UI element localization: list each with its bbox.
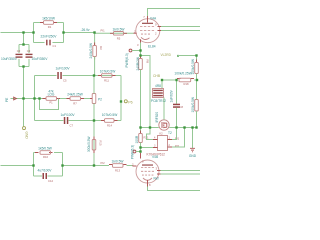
svg-text:240R/2W: 240R/2W bbox=[136, 56, 140, 70]
junction at 192,127 bbox=[191, 126, 193, 128]
svg-text:T2: T2 bbox=[168, 131, 172, 135]
svg-text:1uF/100V: 1uF/100V bbox=[55, 66, 70, 70]
capacitor C7 lower coupling bbox=[60, 113, 75, 128]
junction at 34,98 bbox=[33, 97, 35, 99]
wire main top rail left bbox=[1, 32, 34, 34]
node -26.9v bbox=[81, 28, 90, 32]
junction at 140,127 bbox=[139, 126, 141, 128]
junction at 140,151 bbox=[139, 150, 141, 152]
svg-text:1uF/100V: 1uF/100V bbox=[60, 113, 75, 117]
gnd flag left bbox=[5, 97, 17, 102]
wire elec cap loop bbox=[19, 45, 29, 67]
svg-text:R13: R13 bbox=[115, 168, 120, 172]
svg-text:PE: PE bbox=[5, 97, 9, 102]
junction at 33,32 bbox=[32, 31, 34, 33]
wire ground bus y98 bbox=[11, 98, 91, 100]
svg-text:K7040=P612: K7040=P612 bbox=[147, 153, 166, 157]
wire heater links bbox=[141, 128, 154, 148]
svg-text:10uF/350V: 10uF/350V bbox=[32, 57, 49, 61]
label GND vertical bbox=[23, 127, 29, 140]
junction at 162,78 bbox=[161, 79, 163, 81]
label CHB bbox=[153, 74, 161, 78]
junction at 93.5,165 bbox=[93, 164, 95, 166]
junction at 120.5,101 bbox=[120, 100, 122, 102]
svg-text:-26.9v: -26.9v bbox=[81, 28, 90, 32]
svg-text:P1: P1 bbox=[49, 101, 53, 105]
svg-text:R9: R9 bbox=[145, 60, 149, 64]
junction at 140,147 bbox=[139, 146, 141, 148]
svg-text:1k/0.5W: 1k/0.5W bbox=[113, 27, 126, 31]
wire main top rail right bbox=[64, 32, 95, 34]
resistor R5 1k/0.5W bbox=[110, 27, 127, 40]
junction at 184,127 bbox=[183, 126, 185, 128]
svg-text:2: 2 bbox=[155, 32, 157, 36]
wire ground drop x23 bbox=[23, 67, 25, 127]
junction at 94,32 bbox=[93, 31, 95, 33]
svg-text:240k/0.5W: 240k/0.5W bbox=[89, 42, 93, 58]
capacitor C8 1uF/63V bbox=[170, 80, 184, 128]
mosfet T2 bbox=[155, 98, 172, 136]
svg-text:CHB: CHB bbox=[153, 74, 161, 78]
svg-text:C3: C3 bbox=[27, 49, 31, 53]
svg-text:C12: C12 bbox=[48, 179, 53, 183]
junction at 23,98 bbox=[22, 97, 24, 99]
junction at 93.5,75 bbox=[93, 74, 95, 76]
wire connector right pin1 bbox=[172, 128, 177, 140]
potentiometer P2 bbox=[90, 76, 102, 166]
svg-text:1k5/0.5W: 1k5/0.5W bbox=[38, 147, 53, 151]
resistor R22 100k vertical right bbox=[191, 79, 198, 128]
svg-text:P6: P6 bbox=[128, 100, 132, 104]
resistor R18 100k horizontal bbox=[174, 71, 194, 85]
wire input coupling top bbox=[35, 75, 122, 77]
capacitor C2 10uF/350V bbox=[1, 49, 23, 61]
resistor R15 300k vertical bbox=[87, 136, 102, 153]
resistor R21 small vertical bbox=[135, 131, 149, 154]
junction at 33,164 bbox=[32, 164, 34, 166]
wire CHB rail bbox=[162, 79, 198, 81]
junction at 196,78 bbox=[196, 79, 198, 81]
resistor R11 107k horizontal bbox=[98, 70, 116, 83]
svg-text:22nF/250V: 22nF/250V bbox=[41, 35, 58, 39]
svg-text:VL2RD: VL2RD bbox=[161, 53, 172, 57]
power flag PWR(6.3) bottom bbox=[131, 145, 141, 159]
wire cathode down bbox=[140, 43, 142, 59]
svg-text:7: 7 bbox=[143, 15, 145, 19]
wire gnd drop bbox=[192, 128, 194, 149]
resistor R7 24k horizontal bbox=[67, 93, 85, 106]
svg-text:300k/0.5W: 300k/0.5W bbox=[87, 136, 91, 152]
wire tube right outputs bbox=[161, 171, 201, 175]
ground symbol right bbox=[189, 148, 197, 158]
svg-text:24k/0.25W: 24k/0.25W bbox=[67, 93, 83, 97]
label VL2RD bbox=[161, 53, 179, 57]
wire connector right pin2 bbox=[172, 128, 185, 148]
svg-text:V4A: V4A bbox=[150, 17, 157, 21]
resistor R13 1k lower bbox=[109, 160, 127, 173]
resistor R16 1k/0.5W bbox=[35, 147, 53, 159]
wire g1 right bbox=[161, 30, 201, 32]
svg-text:107k/0.5W: 107k/0.5W bbox=[102, 113, 118, 117]
junction at 177,78 bbox=[175, 79, 177, 81]
svg-text:1k/0.5W: 1k/0.5W bbox=[112, 160, 125, 164]
junction at 176,127 bbox=[175, 126, 177, 128]
resistor R9 240R vertical bbox=[136, 56, 149, 128]
svg-text:LOG: LOG bbox=[48, 93, 55, 97]
wire cathode bypass branch bbox=[141, 56, 151, 128]
svg-text:R15: R15 bbox=[98, 141, 102, 146]
svg-text:4R8: 4R8 bbox=[155, 84, 161, 88]
tube V2 EL84 bottom bbox=[132, 153, 161, 187]
svg-text:100k/0.25W: 100k/0.25W bbox=[174, 71, 192, 75]
wire VL2RD to chain bbox=[178, 56, 197, 63]
label OP6 bbox=[124, 100, 132, 105]
resistor P1 47k with bypass bbox=[40, 90, 61, 110]
svg-text:100R: 100R bbox=[135, 135, 139, 143]
wire cathode bottom out bbox=[148, 187, 201, 191]
svg-text:100k/0.5W: 100k/0.5W bbox=[191, 96, 195, 112]
label PI2 bbox=[101, 161, 106, 165]
connector K2 K7040-P612 bbox=[147, 132, 180, 157]
svg-text:GND: GND bbox=[25, 132, 29, 140]
svg-text:PWR(6.3): PWR(6.3) bbox=[125, 53, 129, 67]
svg-text:4u7/100V: 4u7/100V bbox=[38, 169, 53, 173]
svg-text:Ref: Ref bbox=[154, 177, 159, 181]
svg-text:C2: C2 bbox=[17, 49, 21, 53]
junction at 196,127 bbox=[195, 126, 197, 128]
svg-text:PI2: PI2 bbox=[101, 161, 106, 165]
svg-text:K2: K2 bbox=[159, 132, 163, 136]
svg-text:C1: C1 bbox=[53, 44, 57, 48]
wire lower channel y120 bbox=[35, 120, 122, 122]
label PI1 bbox=[101, 29, 106, 33]
svg-text:PWR(6.3): PWR(6.3) bbox=[131, 145, 135, 159]
junction at 39,98 bbox=[38, 97, 40, 99]
svg-text:R11: R11 bbox=[104, 78, 109, 82]
resistor R1 1k/10W bbox=[40, 17, 57, 30]
capacitor C12 bbox=[38, 169, 54, 184]
junction at 141,55 bbox=[139, 54, 141, 56]
junction at 23,32 bbox=[22, 31, 24, 33]
wire anode to top rail bbox=[148, 9, 201, 17]
svg-text:9: 9 bbox=[142, 160, 144, 164]
svg-text:IRF820: IRF820 bbox=[155, 112, 159, 123]
svg-text:1k5/10W: 1k5/10W bbox=[42, 17, 56, 21]
wire bottom grid line right bbox=[63, 165, 133, 167]
svg-text:R5: R5 bbox=[117, 36, 121, 40]
junction at 141,50 bbox=[139, 49, 141, 51]
resistor R20 100k vertical bbox=[191, 58, 204, 80]
svg-text:3: 3 bbox=[137, 43, 139, 47]
svg-text:R1: R1 bbox=[48, 25, 52, 29]
svg-text:1uF/63V: 1uF/63V bbox=[170, 89, 174, 102]
transformer TR1 hatched bbox=[151, 80, 166, 103]
resistor R14 107k lower bbox=[101, 113, 118, 127]
svg-text:EL84: EL84 bbox=[148, 44, 156, 48]
tube V1 EL84 top bbox=[134, 15, 162, 48]
junction at 62,164 bbox=[61, 164, 63, 166]
junction at 23,44 bbox=[22, 43, 24, 45]
svg-text:R7: R7 bbox=[73, 101, 77, 105]
wire RC loop1 frame bbox=[34, 23, 64, 43]
svg-text:GND: GND bbox=[189, 154, 197, 158]
wire mosfet gate bbox=[141, 127, 159, 129]
junction at 93.5,120 bbox=[93, 119, 95, 121]
svg-text:C5: C5 bbox=[63, 79, 67, 83]
RC loop2 frame bbox=[34, 153, 63, 177]
svg-text:C7: C7 bbox=[70, 124, 74, 128]
wire mosfet source rail bbox=[169, 127, 196, 129]
wire anode feed from above bbox=[140, 128, 142, 134]
wire rail to grid resistor bbox=[95, 32, 134, 34]
svg-text:8: 8 bbox=[149, 183, 151, 187]
junction at 148,127 bbox=[149, 126, 151, 128]
svg-text:R16: R16 bbox=[43, 155, 48, 159]
svg-text:R14: R14 bbox=[107, 123, 112, 127]
svg-text:R3: R3 bbox=[99, 46, 103, 50]
power flag PWR(6.3) bbox=[125, 49, 141, 67]
wire g2 right bbox=[161, 26, 201, 28]
svg-text:3: 3 bbox=[156, 167, 158, 171]
junction at 63,32 bbox=[62, 31, 64, 33]
svg-text:C8: C8 bbox=[180, 105, 184, 109]
wire bottom grid line left bbox=[1, 165, 34, 167]
wire elec cap feed bbox=[23, 33, 25, 45]
svg-text:PI1: PI1 bbox=[101, 29, 106, 33]
resistor R3 240k vertical bbox=[89, 33, 103, 76]
wire input node vertical x34 bbox=[34, 76, 36, 121]
wire OP6 vertical bbox=[120, 76, 122, 121]
junction at 23,66 bbox=[22, 65, 24, 67]
svg-text:107k/0.5W: 107k/0.5W bbox=[100, 70, 116, 74]
svg-text:R18: R18 bbox=[184, 82, 189, 86]
capacitor C3 10uF/350V bbox=[26, 49, 49, 61]
svg-text:P2: P2 bbox=[98, 98, 102, 102]
svg-text:10uF/350V: 10uF/350V bbox=[1, 57, 18, 61]
capacitor C5 1uF/100V bbox=[55, 66, 70, 82]
junction at 196,55 bbox=[195, 54, 197, 56]
capacitor C1 22uF/250V bbox=[41, 35, 58, 48]
